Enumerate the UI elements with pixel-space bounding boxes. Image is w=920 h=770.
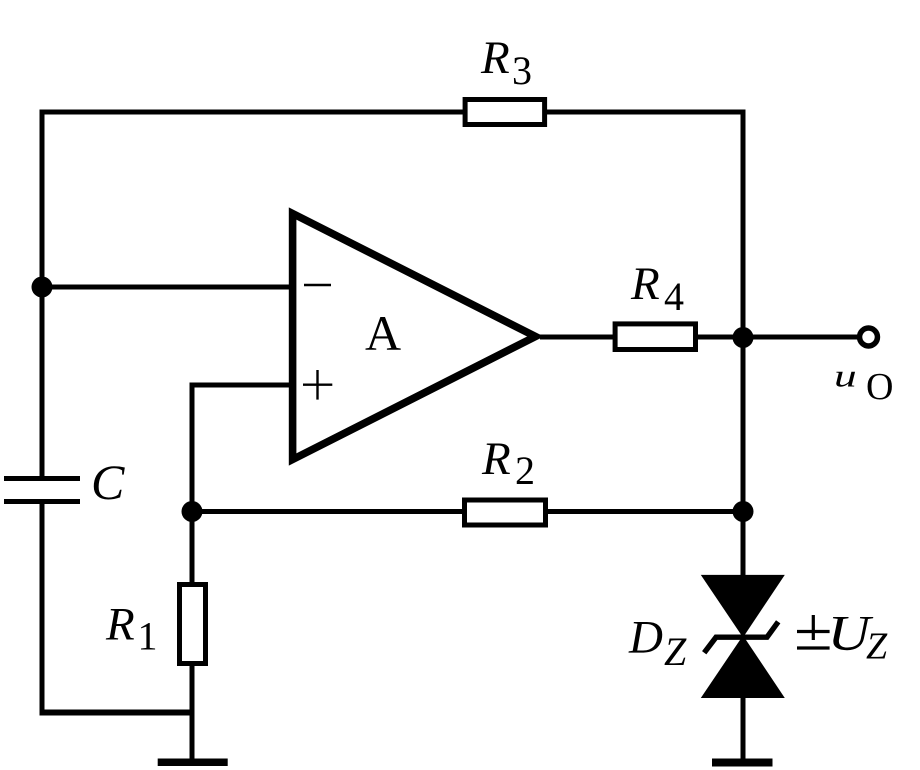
wire zener to ground	[741, 696, 746, 759]
op-amp minus sign	[304, 284, 331, 286]
resistor R3	[465, 100, 544, 125]
svg-text:R: R	[481, 433, 511, 485]
op-amp plus sign	[303, 384, 332, 386]
capacitor C bottom plate	[4, 499, 80, 504]
wire R1 bottom to ground	[190, 664, 195, 759]
svg-text:O: O	[866, 366, 893, 408]
wire left vertical lower	[40, 502, 45, 716]
node output	[733, 327, 754, 348]
svg-text:2: 2	[515, 448, 535, 493]
svg-text:u: u	[834, 359, 857, 394]
capacitor C top plate	[4, 476, 80, 481]
wire noninverting input horizontal	[192, 383, 293, 388]
svg-text:R: R	[105, 599, 135, 651]
ground right	[712, 759, 773, 767]
resistor R1	[180, 585, 206, 664]
svg-text:R: R	[480, 32, 510, 84]
svg-text:4: 4	[664, 274, 684, 319]
ground left	[158, 759, 228, 767]
zener diode Dz bar	[704, 622, 778, 653]
svg-text:1: 1	[138, 614, 158, 659]
wire top horizontal	[40, 110, 746, 115]
zener diode Dz lower triangle	[701, 636, 785, 699]
wire op-amp output to terminal	[540, 335, 857, 340]
svg-text:R: R	[630, 258, 660, 310]
wire inverting input	[42, 285, 293, 290]
resistor R4	[615, 324, 695, 350]
node left (inverting)	[32, 277, 53, 298]
wire right vertical	[741, 110, 746, 577]
svg-text:Z: Z	[664, 629, 687, 674]
wire left vertical upper	[40, 110, 45, 479]
svg-text:C: C	[91, 454, 125, 510]
wire bottom left horizontal	[40, 710, 193, 716]
svg-text:3: 3	[512, 48, 532, 93]
wire R2 horizontal	[192, 509, 743, 514]
zener diode Dz upper triangle	[701, 575, 785, 638]
node plus input	[182, 501, 203, 522]
label plus-minus UZ	[812, 615, 815, 640]
wire noninverting input vertical	[190, 383, 195, 585]
resistor R2	[465, 500, 546, 525]
svg-text:D: D	[628, 612, 663, 664]
svg-text:A: A	[365, 305, 401, 361]
svg-text:Z: Z	[866, 626, 888, 668]
op-amp U1 triangle	[293, 214, 536, 460]
node R2 right	[733, 501, 754, 522]
output terminal circle	[860, 328, 878, 346]
